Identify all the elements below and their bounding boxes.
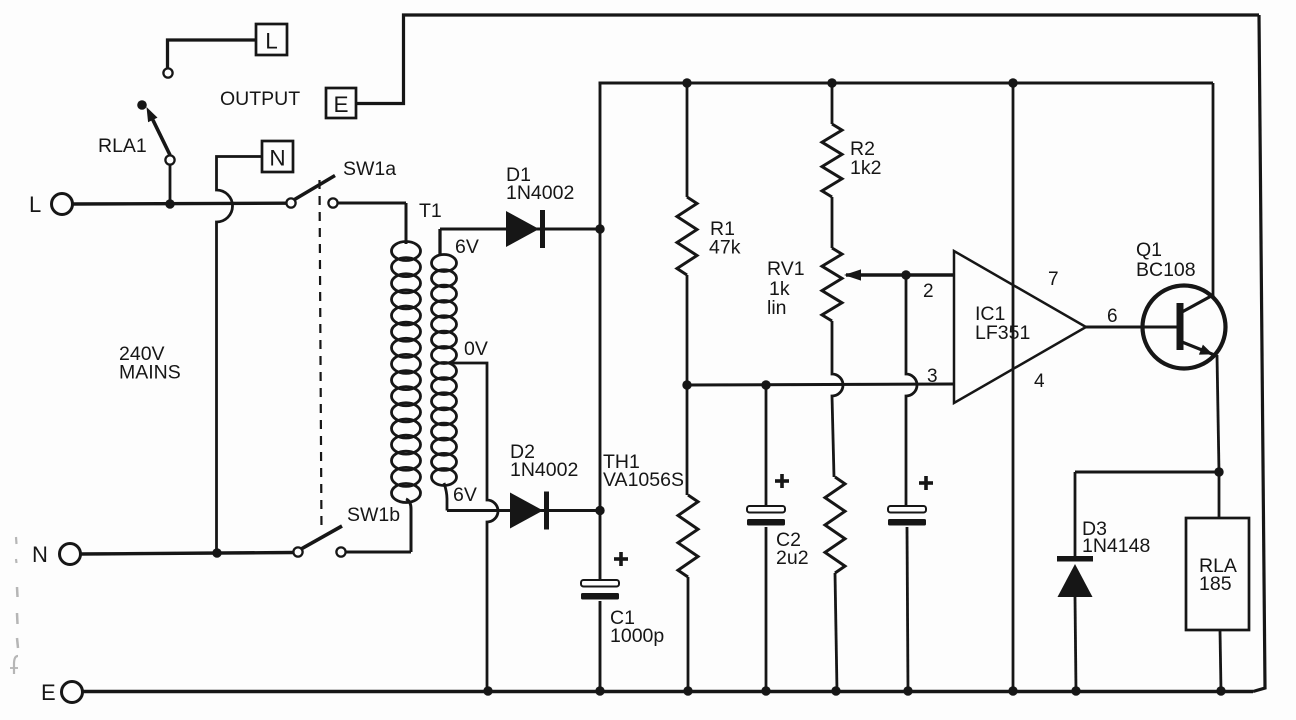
svg-text:1k2: 1k2	[850, 157, 881, 179]
svg-text:47k: 47k	[709, 237, 741, 259]
svg-text:7: 7	[1048, 269, 1059, 290]
svg-text:E: E	[41, 680, 56, 705]
svg-text:2: 2	[923, 281, 934, 302]
svg-text:6V: 6V	[453, 484, 477, 506]
svg-text:1000p: 1000p	[610, 625, 664, 647]
svg-text:6V: 6V	[455, 236, 479, 258]
svg-text:L: L	[265, 29, 278, 54]
svg-text:1N4002: 1N4002	[510, 459, 578, 481]
svg-text:lin: lin	[767, 297, 787, 319]
svg-text:SW1a: SW1a	[343, 158, 396, 180]
svg-text:BC108: BC108	[1136, 259, 1196, 281]
svg-text:4: 4	[1034, 371, 1045, 392]
svg-text:185: 185	[1199, 573, 1232, 595]
svg-text:2u2: 2u2	[776, 547, 809, 569]
svg-text:N: N	[32, 542, 48, 567]
svg-text:RLA1: RLA1	[98, 135, 147, 157]
svg-text:N: N	[269, 146, 285, 171]
svg-text:VA1056S: VA1056S	[603, 469, 684, 491]
svg-text:Q1: Q1	[1136, 239, 1162, 261]
svg-text:1N4148: 1N4148	[1082, 535, 1150, 557]
svg-text:RV1: RV1	[767, 258, 805, 280]
svg-text:T1: T1	[419, 200, 442, 222]
svg-text:E: E	[333, 92, 348, 117]
svg-text:3: 3	[927, 366, 938, 387]
svg-text:OUTPUT: OUTPUT	[220, 88, 300, 110]
svg-text:6: 6	[1107, 306, 1118, 327]
svg-text:L: L	[29, 192, 41, 217]
svg-text:0V: 0V	[464, 338, 488, 360]
svg-text:1N4002: 1N4002	[506, 182, 574, 204]
svg-text:MAINS: MAINS	[119, 362, 181, 384]
svg-text:SW1b: SW1b	[347, 504, 400, 526]
svg-text:LF351: LF351	[975, 322, 1030, 344]
